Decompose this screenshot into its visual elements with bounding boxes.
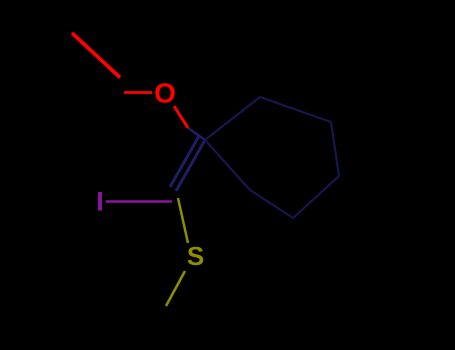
wire: O-C1 bond carbon half (dark navy) [188,128,205,140]
wire: benzene ring edge P2-P3 [260,97,331,122]
wire: benzene ring edge C1-P2 [205,97,260,140]
svg-text:S: S [187,241,204,271]
wire: benzene ring edge P6-C1 [205,140,250,190]
wire: S-CH3 bond (olive) [166,271,185,306]
wire: benzene ring edge P3-P4 [331,122,339,176]
svg-text:O: O [154,78,176,109]
wire: benzene ring edge P5-P6 [250,190,293,218]
wire: CH2-O bond (red horizontal) [124,91,152,94]
wire: O-C1 bond red half [174,106,188,128]
wire: ethyl CH3-CH2 bond (red diagonal, top left) [72,33,120,78]
wire: C1=C2 vinyl double bond (dark navy) [176,140,205,191]
wire: C2-I bond (purple horizontal) [106,200,172,202]
wire: C2-S bond (olive) [178,198,188,243]
wire: benzene ring edge P4-P5 [293,176,339,218]
svg-text:I: I [96,187,104,217]
